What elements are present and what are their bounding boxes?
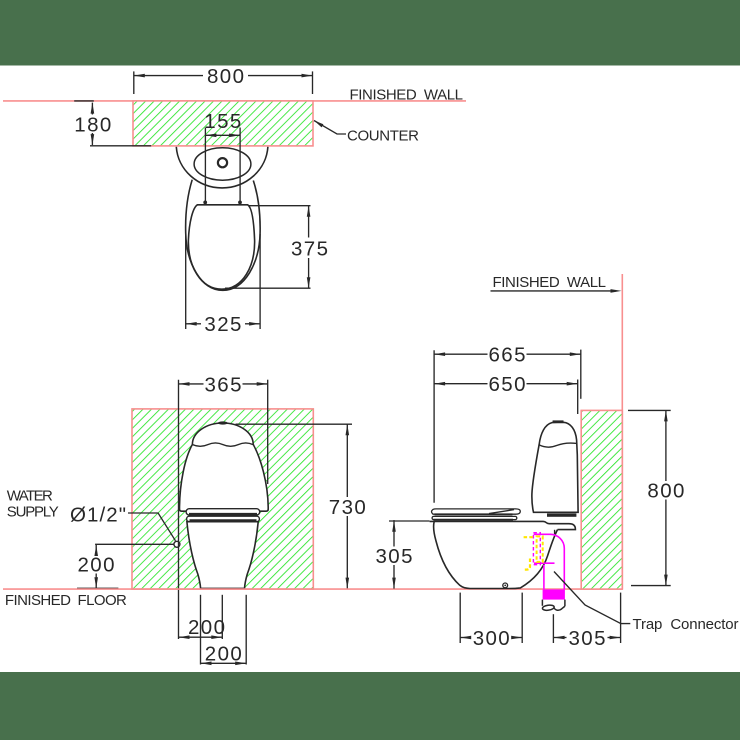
trap: bottom edge [534,562,555,564]
leader to wall [491,290,617,292]
toilet front: tank [180,423,269,511]
svg-text:200: 200 [78,553,115,576]
seat lid (side) [432,509,521,514]
trap: magenta D outline [534,534,565,589]
seat ring bar [187,516,260,522]
dimension 365 [179,380,268,639]
svg-text:200: 200 [205,642,242,665]
toilet plan: bowl outer egg [186,180,261,291]
svg-text:365: 365 [205,373,242,396]
wall hatched section (side view) [581,410,622,589]
svg-text:300: 300 [473,627,510,650]
dimension 305 (trap to wall) [553,593,620,643]
seat underside dark band [434,519,514,521]
dimension 800 (height) [628,410,671,585]
dimension 300 [460,593,522,643]
leader COUNTER [314,121,323,128]
finished wall line (top) [3,100,466,102]
dimension 155 [205,128,240,203]
leader Trap Connector [554,572,630,624]
finished wall line (side, red vertical) [621,274,623,589]
svg-text:665: 665 [489,344,526,367]
counter hatched section [133,101,313,146]
bowl bolt cap (side) [503,583,508,588]
dimension 800 [134,71,313,94]
svg-text:Trap Connector: Trap Connector [633,616,739,633]
dimension 200 (water supply height) [77,544,174,588]
seat hinge bolts [203,201,207,205]
svg-text:155: 155 [204,110,241,133]
dimension 325 [186,234,260,329]
extension lines under bowl [201,595,247,665]
svg-text:FINISHED WALL: FINISHED WALL [350,87,464,104]
bottom green band [0,672,740,740]
pipe below floor [542,600,565,611]
dimension 730 [236,424,353,588]
seat lid bar [186,509,260,515]
toilet plan: tank semicircle [176,147,268,188]
top green band [0,0,740,66]
dimension 200 (bolt spacing) [201,662,247,664]
svg-text:305: 305 [376,545,413,568]
hidden fitting (yellow dashed) [524,536,543,569]
svg-text:800: 800 [647,479,684,502]
svg-text:180: 180 [74,113,111,136]
water supply point [174,541,180,547]
toilet plan: flush button [218,158,227,167]
svg-text:305: 305 [569,627,606,650]
bowl outlet line [554,530,556,534]
svg-text:FINISHED FLOOR: FINISHED FLOOR [5,592,127,609]
tank water wavy line [193,443,253,446]
tank wavy line (side) [539,443,577,447]
trap: magenta band at floor [543,589,565,599]
dimension 665 [434,350,581,503]
toilet front: bowl pedestal [187,522,258,589]
svg-text:200: 200 [188,616,225,639]
svg-text:730: 730 [329,496,366,519]
svg-text:800: 800 [207,65,244,88]
tank top nub (side) [553,420,564,422]
trap: pipe left edge (magenta) [543,565,545,590]
dimension 650 [434,380,578,415]
toilet side: tank [532,422,578,512]
dimension 305 (seat height) [389,520,430,589]
seat ring (side) [432,516,517,519]
dimension 375 [225,206,311,289]
svg-text:SUPPLY: SUPPLY [7,504,59,521]
dimension 180 [74,101,151,146]
svg-text:FINISHED WALL: FINISHED WALL [493,274,607,291]
svg-text:325: 325 [204,313,241,336]
svg-text:650: 650 [489,373,526,396]
lid surface slant [489,510,514,514]
svg-text:WATER: WATER [7,487,53,504]
bowl rim and back shelf [430,521,576,529]
toilet plan: seat [188,205,254,289]
wall hatched section (front view) [132,409,313,589]
svg-text:COUNTER: COUNTER [347,128,419,145]
water supply leader [128,513,176,541]
bowl outline (side) [434,521,558,588]
toilet plan: tank lid ellipse [194,148,251,180]
dimension 200 (supply to centerline) [179,636,223,638]
svg-text:Ø1/2": Ø1/2" [70,504,126,527]
tank base band [547,513,576,516]
tank top nub [218,421,228,424]
svg-text:375: 375 [291,237,328,260]
finished floor line [3,588,622,590]
hidden fitting (magenta dashed) [533,533,540,565]
